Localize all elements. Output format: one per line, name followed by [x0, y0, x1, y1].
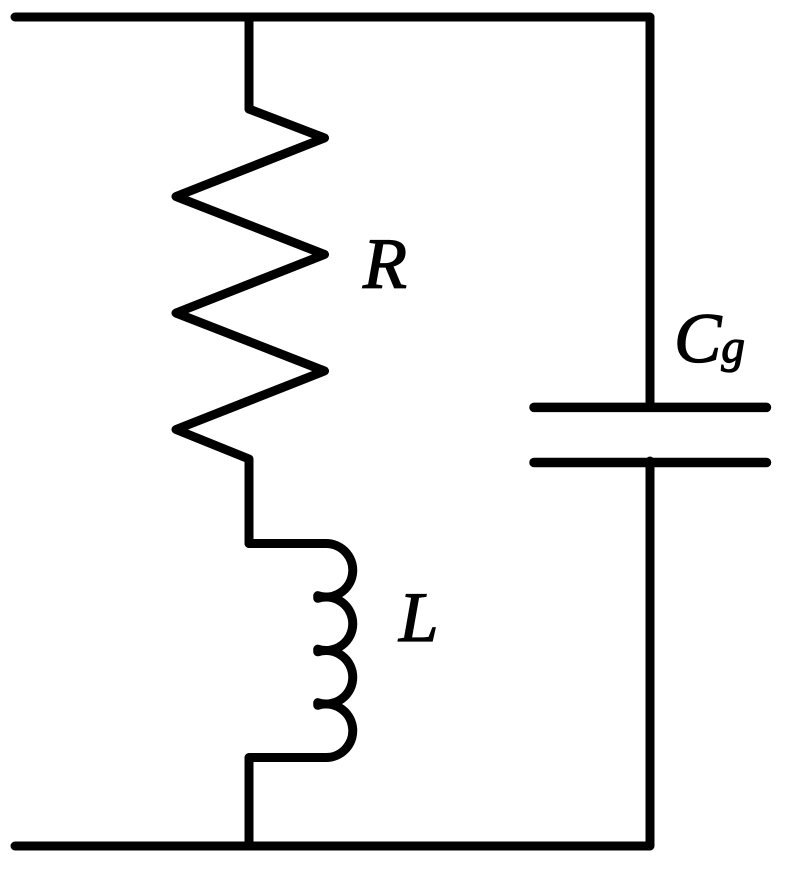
svg-text:L: L	[398, 579, 439, 657]
inductor L	[249, 544, 353, 847]
capacitor Cg bottom plate	[534, 458, 767, 468]
resistor R	[176, 109, 325, 544]
wire bottom rail and lower right branch	[15, 461, 650, 846]
wire left branch top lead	[245, 17, 254, 109]
capacitor Cg top plate	[534, 403, 767, 413]
svg-text:R: R	[362, 224, 407, 304]
svg-text:Cg: Cg	[674, 300, 745, 378]
wire top rail and upper right branch	[15, 17, 650, 407]
